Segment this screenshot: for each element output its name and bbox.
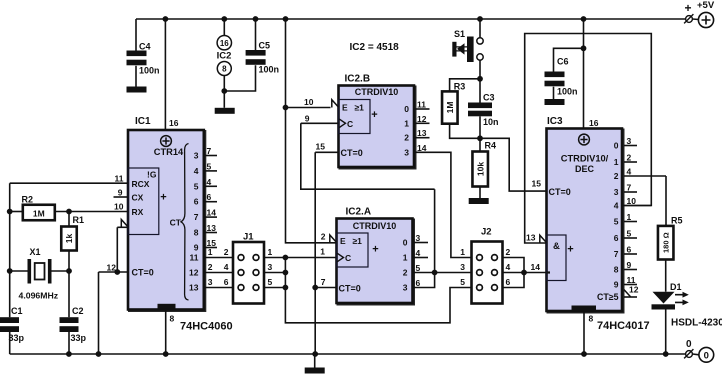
svg-text:R3: R3 <box>454 82 466 92</box>
IC2.A enable polarity wedge <box>330 235 337 243</box>
svg-text:&: & <box>553 241 560 252</box>
svg-text:8: 8 <box>222 65 227 74</box>
svg-text:R5: R5 <box>671 216 683 226</box>
terminal 0V pin <box>684 349 693 358</box>
svg-text:11: 11 <box>417 100 426 110</box>
wire R3 bottom lead <box>450 124 480 139</box>
svg-text:180 Ω: 180 Ω <box>662 232 671 253</box>
svg-text:0: 0 <box>686 339 692 350</box>
svg-text:CTRDIV10: CTRDIV10 <box>353 221 397 231</box>
svg-text:33p: 33p <box>71 333 87 343</box>
wire 0V bottom rail <box>10 353 686 355</box>
wire R1 bottom lead <box>68 251 70 272</box>
wire IC1 clock wedge stub <box>117 226 128 228</box>
wire J1 pin 5 to bus <box>264 287 285 289</box>
junction IC2 gnd / C5 <box>221 88 227 94</box>
wire IC1 pin 13 stub <box>204 232 217 234</box>
svg-text:+: + <box>567 244 573 256</box>
ground below C4 <box>127 87 147 93</box>
capacitor C3 <box>468 103 492 109</box>
wire IC3 pin 2 stub <box>624 161 637 163</box>
wire IC1 pin 4 stub <box>204 185 217 187</box>
svg-text:4.096MHz: 4.096MHz <box>19 290 59 300</box>
svg-text:RCX: RCX <box>132 179 150 189</box>
svg-text:DEC: DEC <box>575 164 595 174</box>
wire IC1 pin 15 stub <box>204 247 217 249</box>
capacitor C1 <box>0 317 19 323</box>
svg-text:15: 15 <box>532 179 542 189</box>
svg-text:10: 10 <box>114 201 124 211</box>
IC1 oscillator inner box <box>128 168 159 235</box>
svg-text:3: 3 <box>614 187 619 197</box>
svg-text:11: 11 <box>627 275 636 285</box>
wire R3 top lead <box>450 79 480 92</box>
svg-text:D1: D1 <box>670 282 682 292</box>
wire IC1 pin 5 stub <box>204 170 217 172</box>
wire IC1 pin 12 <box>99 271 129 273</box>
IC3 pin 13 polarity wedge <box>540 235 547 243</box>
wire terminal to 0V node <box>693 353 700 356</box>
svg-text:5: 5 <box>460 277 465 287</box>
svg-text:IC3: IC3 <box>547 116 563 127</box>
svg-text:R2: R2 <box>22 195 34 205</box>
capacitor C2 <box>60 317 79 323</box>
svg-text:74HC4060: 74HC4060 <box>180 321 233 333</box>
wire IC2.B clock from IC2.A outputs <box>301 123 435 189</box>
IC1 plus-supply symbol <box>161 136 172 147</box>
svg-text:10: 10 <box>304 97 314 107</box>
svg-text:13: 13 <box>207 223 217 233</box>
junction X1 left <box>7 268 13 274</box>
svg-text:+: + <box>371 109 377 121</box>
counter IC2.B body <box>339 86 415 168</box>
svg-text:≥1: ≥1 <box>353 236 363 246</box>
svg-text:CT=0: CT=0 <box>341 148 363 158</box>
wire enable net from rail to IC2.A pin 2 <box>286 19 337 243</box>
IC3 pin 14 entry nub <box>547 271 551 273</box>
wire +5V top rail <box>136 18 686 20</box>
svg-text:3: 3 <box>416 233 421 243</box>
svg-text:2: 2 <box>627 153 632 163</box>
wire X1 right lead <box>52 270 70 272</box>
wire IC3 pin 16 supply <box>583 19 585 129</box>
svg-text:4: 4 <box>506 262 511 272</box>
wire C4 top lead <box>135 19 137 51</box>
wire IC1 pin 6 stub <box>204 201 217 203</box>
wire IC2.A pin 7 reset <box>315 287 336 289</box>
svg-text:2: 2 <box>208 262 213 272</box>
svg-text:6: 6 <box>614 233 619 243</box>
svg-text:+: + <box>685 1 692 15</box>
node +5V supply circle <box>698 12 713 27</box>
svg-text:CT=0: CT=0 <box>132 268 154 278</box>
wire IC3 pin 5 stub <box>624 237 637 239</box>
svg-text:C6: C6 <box>557 57 569 67</box>
ground below bottom rail <box>305 368 325 374</box>
junction IC2.A outputs <box>432 270 438 276</box>
svg-text:8: 8 <box>614 265 619 275</box>
wire IC1 pin 14 stub <box>204 216 217 218</box>
junction rail/IC1 pin16 <box>163 16 169 22</box>
J1 pin circle right <box>253 255 259 261</box>
svg-text:IC2 = 4518: IC2 = 4518 <box>350 42 400 53</box>
ground below R4 <box>469 198 489 204</box>
svg-text:4: 4 <box>224 262 229 272</box>
J2 pin circle right <box>492 255 498 261</box>
svg-text:10: 10 <box>627 196 637 206</box>
wire J1 pin 3 to bus <box>264 272 285 274</box>
svg-text:9: 9 <box>627 260 632 270</box>
IC2 pin 16 circle <box>217 36 231 50</box>
junction J1 pin 1 bus <box>283 255 289 261</box>
wire IC3 pin 12 stub <box>624 296 637 298</box>
wire IC3 pin 1 stub <box>624 221 637 223</box>
svg-text:13: 13 <box>417 128 427 138</box>
junction rail/S1 <box>477 16 483 22</box>
svg-text:CT≥5: CT≥5 <box>597 292 619 302</box>
J1 pin circle left <box>238 285 244 291</box>
svg-text:4: 4 <box>627 167 632 177</box>
svg-text:R1: R1 <box>73 215 85 225</box>
junction IC3 supply / C6 <box>581 45 587 51</box>
junction C3/R4/reset net <box>477 135 483 141</box>
svg-text:X1: X1 <box>30 247 41 257</box>
svg-text:2: 2 <box>403 268 408 278</box>
svg-text:9: 9 <box>194 243 199 253</box>
svg-text:+5V: +5V <box>697 0 715 11</box>
wire C6 bottom lead <box>553 87 555 99</box>
svg-text:7: 7 <box>207 146 212 156</box>
wire IC3 pin 10 output to feedback <box>624 205 651 207</box>
wire IC1 pin 10 to R2 <box>55 211 128 213</box>
wire IC1 pin 3 to J1 <box>204 287 233 289</box>
svg-text:12: 12 <box>629 285 639 295</box>
svg-text:CX: CX <box>132 192 144 202</box>
svg-text:C1: C1 <box>11 306 23 316</box>
wire C3 top lead <box>479 79 481 103</box>
svg-text:CTRDIV10/: CTRDIV10/ <box>561 154 609 164</box>
resistor R3 <box>442 91 458 123</box>
svg-text:15: 15 <box>316 142 326 152</box>
wire IC1 pin 8 to ground rail <box>165 310 167 355</box>
wire IC2.B pin 10 <box>286 107 331 109</box>
svg-text:100n: 100n <box>139 66 160 76</box>
wire IC3 pin 6 stub <box>624 253 637 255</box>
wire IC2.A pin 3 stub <box>413 242 429 244</box>
svg-text:100n: 100n <box>259 65 280 75</box>
svg-text:11: 11 <box>115 174 124 184</box>
junction IC1 pin 12 <box>114 269 120 275</box>
svg-text:1: 1 <box>208 247 213 257</box>
svg-text:1: 1 <box>268 247 273 257</box>
svg-text:C3: C3 <box>483 93 495 103</box>
junction D1 / ground rail <box>663 351 669 357</box>
svg-text:7: 7 <box>194 212 199 222</box>
wire IC2.A pin 6 up to IC2.B clock <box>413 189 435 287</box>
J1 pin circle right <box>253 270 259 276</box>
svg-text:8: 8 <box>170 314 175 324</box>
junction R2/R1/IC1 pin10 <box>66 209 72 215</box>
svg-text:3: 3 <box>627 136 632 146</box>
svg-text:4: 4 <box>614 201 619 211</box>
wire IC3 pin 3 stub <box>624 145 637 147</box>
svg-text:3: 3 <box>268 262 273 272</box>
svg-text:C: C <box>347 119 353 129</box>
svg-text:1M: 1M <box>445 102 455 114</box>
svg-text:1k: 1k <box>64 234 74 244</box>
wire R5 to D1 <box>665 260 667 292</box>
svg-text:C4: C4 <box>139 42 151 52</box>
junction rail/IC2 pin16 <box>221 16 227 22</box>
resistor R1 <box>61 227 77 251</box>
svg-text:IC2.B: IC2.B <box>345 74 371 85</box>
svg-text:+: + <box>372 243 378 255</box>
wire IC1 pin 7 stub <box>204 155 217 157</box>
wire C4 bottom lead <box>135 66 137 87</box>
IC2.B enable polarity wedge <box>332 100 339 108</box>
counter IC3 74HC4017 body <box>547 129 623 312</box>
J1 pin circle left <box>238 255 244 261</box>
wire left oscillator column <box>9 183 11 317</box>
wire IC2.B pin 15 reset <box>315 151 338 153</box>
junction reset line / ground rail <box>312 351 318 357</box>
svg-text:R4: R4 <box>485 141 497 151</box>
wire IC2.B pin 14 to J2 pin 1 <box>414 152 472 257</box>
J2 pin circle left <box>477 270 483 276</box>
wire C3 bottom lead <box>479 116 481 138</box>
svg-text:14: 14 <box>531 262 541 272</box>
junction IC3 pin8 / rail <box>581 351 587 357</box>
wire D1 to ground rail <box>665 310 667 355</box>
wire IC3 pin 11 stub <box>624 284 637 286</box>
svg-text:HSDL-4230: HSDL-4230 <box>671 318 722 329</box>
junction rail/enable net <box>283 16 289 22</box>
svg-text:16: 16 <box>589 118 599 128</box>
IC2.A inner box <box>337 233 369 267</box>
svg-text:+: + <box>160 192 166 204</box>
svg-text:8: 8 <box>194 228 199 238</box>
wire IC3 pin 9 stub <box>624 269 637 271</box>
wire J2 right pins bracket <box>503 258 525 288</box>
junction J1 pin 5 bus <box>283 285 289 291</box>
wire reset/ground line IC2 <box>314 152 316 354</box>
svg-text:C: C <box>345 253 351 263</box>
svg-text:9: 9 <box>305 113 310 123</box>
resistor R2 <box>23 205 55 221</box>
svg-text:7: 7 <box>321 277 326 287</box>
svg-text:1: 1 <box>403 253 408 263</box>
node 0V supply circle <box>699 347 714 362</box>
svg-text:CT=0: CT=0 <box>549 187 571 197</box>
wire reset net to IC3 pin 15 <box>480 138 547 191</box>
resistor R4 <box>472 152 488 187</box>
wire C5 top lead <box>255 19 257 50</box>
svg-text:7: 7 <box>627 183 632 193</box>
ground below C6 <box>545 99 565 105</box>
J1 pin circle right <box>253 285 259 291</box>
svg-text:IC2.A: IC2.A <box>346 207 372 218</box>
svg-text:RX: RX <box>132 207 144 217</box>
wire IC3 pin 8 to ground rail <box>583 311 585 354</box>
jumper header J1 <box>233 242 264 304</box>
svg-text:6: 6 <box>194 197 199 207</box>
wire IC2.B pin 9 clock <box>301 122 339 124</box>
svg-text:1M: 1M <box>33 208 45 218</box>
svg-text:6: 6 <box>506 277 511 287</box>
svg-text:6: 6 <box>416 278 421 288</box>
wire R5 top lead <box>665 176 667 226</box>
crystal X1 4.096MHz <box>28 259 52 284</box>
svg-text:14: 14 <box>417 143 427 153</box>
wire IC3 pin 4 output to R5 <box>624 175 666 177</box>
svg-text:1: 1 <box>614 157 619 167</box>
capacitor C6 <box>545 72 565 78</box>
svg-text:4: 4 <box>416 248 421 258</box>
svg-text:CT: CT <box>170 218 182 228</box>
svg-text:74HC4017: 74HC4017 <box>597 320 650 332</box>
svg-text:3: 3 <box>208 277 213 287</box>
svg-text:5: 5 <box>194 181 199 191</box>
IC3 plus-supply symbol <box>579 134 590 145</box>
LED D1 <box>652 292 689 310</box>
wire S1 bottom lead <box>479 60 481 79</box>
wire IC2.B pin 12 stub <box>414 122 430 124</box>
svg-text:5: 5 <box>614 217 619 227</box>
junction rail/IC3 pin16 <box>581 16 587 22</box>
svg-text:4: 4 <box>194 166 199 176</box>
svg-text:11: 11 <box>190 253 199 263</box>
wire C2 top lead <box>68 271 70 317</box>
svg-text:0: 0 <box>704 351 709 362</box>
svg-text:J2: J2 <box>481 227 492 238</box>
wire C5 bottom to IC2 pin 8 node <box>224 65 255 91</box>
svg-text:5: 5 <box>268 277 273 287</box>
svg-text:CTR14: CTR14 <box>154 147 184 157</box>
svg-text:≥1: ≥1 <box>355 103 365 113</box>
wire C6 top lead <box>554 48 584 71</box>
svg-text:10n: 10n <box>483 117 499 127</box>
svg-text:3: 3 <box>403 283 408 293</box>
svg-text:5: 5 <box>627 229 632 239</box>
capacitor C5 <box>246 50 266 56</box>
svg-text:12: 12 <box>189 268 199 278</box>
svg-text:1: 1 <box>320 247 325 257</box>
junction rail/C5 <box>253 16 259 22</box>
IC2.B clock chevron <box>339 119 345 127</box>
wire J1 pin 1 to bus <box>264 257 285 259</box>
svg-text:6: 6 <box>207 192 212 202</box>
wire C1 bottom lead <box>9 332 11 354</box>
svg-text:16: 16 <box>169 118 179 128</box>
svg-text:4: 4 <box>207 177 212 187</box>
svg-text:0: 0 <box>614 141 619 151</box>
svg-text:14: 14 <box>207 208 217 218</box>
svg-text:3: 3 <box>404 147 409 157</box>
svg-text:CT=0: CT=0 <box>339 283 361 293</box>
wire R2 left lead <box>10 211 23 213</box>
capacitor C4 <box>127 51 147 57</box>
junction S1/R3/C3 <box>477 76 483 82</box>
IC3 ground bar marker <box>572 306 597 311</box>
wire IC2 pin 16 supply <box>223 19 225 36</box>
IC2.A clock chevron <box>337 253 343 261</box>
svg-text:2: 2 <box>506 247 511 257</box>
wire IC1 pin 11 to oscillator <box>10 182 128 184</box>
wire R4 top lead <box>479 138 481 151</box>
junction J2 output bracket <box>521 270 527 276</box>
terminal +5V pin <box>684 14 693 23</box>
junction J1 pin 3 bus <box>283 270 289 276</box>
svg-text:CTRDIV10: CTRDIV10 <box>355 87 399 97</box>
wire J2 pin 4 to IC3 pin 14 <box>503 272 547 274</box>
IC2.B inner box <box>339 100 371 134</box>
wire IC2.B pin 11 stub <box>414 108 430 110</box>
svg-text:8: 8 <box>589 314 594 324</box>
junction IC1 pin8 / rail <box>163 351 169 357</box>
IC2 pin 8 circle <box>217 62 231 76</box>
wire IC1 pin 2 to J1 <box>204 272 233 274</box>
ground below IC2 pin 8 <box>215 108 235 114</box>
svg-text:3: 3 <box>194 151 199 161</box>
svg-text:6: 6 <box>627 245 632 255</box>
svg-text:C5: C5 <box>259 41 271 51</box>
svg-text:J1: J1 <box>243 232 254 243</box>
J2 pin circle left <box>477 285 483 291</box>
svg-text:5: 5 <box>207 161 212 171</box>
svg-text:2: 2 <box>614 171 619 181</box>
svg-text:1: 1 <box>460 247 465 257</box>
svg-text:0: 0 <box>404 104 409 114</box>
svg-text:IC2: IC2 <box>217 51 232 62</box>
svg-text:1: 1 <box>627 212 632 222</box>
svg-text:12: 12 <box>417 114 427 124</box>
wire IC2.B pin 13 stub <box>414 137 430 139</box>
wire IC1 pin 1 to J1 <box>204 257 233 259</box>
resistor R5 <box>658 226 674 260</box>
wire feedback IC3 pin 10 to pin 13 <box>525 34 652 244</box>
jumper header J2 <box>472 242 503 304</box>
wire J1 bus to IC2.A pin 1 clock <box>285 257 336 259</box>
IC3 CT>=5 polarity wedge <box>624 290 631 297</box>
svg-text:E: E <box>342 103 348 113</box>
svg-text:6: 6 <box>224 277 229 287</box>
IC3 AND inner box <box>547 235 567 281</box>
wire IC2.A pin 4 stub <box>413 257 429 259</box>
wire IC1 pin 16 supply <box>164 19 166 130</box>
svg-text:33p: 33p <box>9 333 25 343</box>
IC1 CT output brace <box>181 144 189 301</box>
junction enable net / IC2.B pin 10 <box>283 105 289 111</box>
wire C2 bottom lead <box>68 332 70 354</box>
junction C2 / rail <box>66 351 72 357</box>
svg-text:7: 7 <box>614 249 619 259</box>
junction X1/R1/C2 <box>66 268 72 274</box>
svg-text:E: E <box>340 236 346 246</box>
wire IC3 pin 7 stub <box>624 191 637 193</box>
wire R4 bottom lead <box>479 187 481 199</box>
svg-text:10k: 10k <box>475 162 485 176</box>
IC1 clock polarity wedge <box>121 220 128 228</box>
counter IC2.A body <box>337 219 413 304</box>
wire IC1 pin 9 stub <box>114 196 129 198</box>
J2 pin circle right <box>492 270 498 276</box>
svg-text:1: 1 <box>404 118 409 128</box>
svg-text:13: 13 <box>189 283 199 293</box>
svg-text:C2: C2 <box>72 306 84 316</box>
wire X1 left lead <box>10 270 28 272</box>
svg-text:12: 12 <box>107 262 117 272</box>
svg-text:9: 9 <box>118 187 123 197</box>
